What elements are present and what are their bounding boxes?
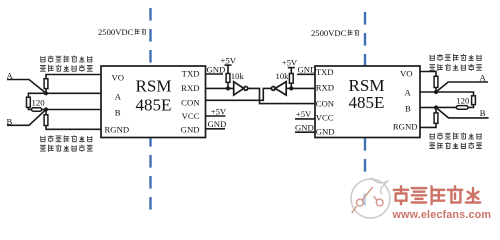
wire 10k to RXD1 node xyxy=(227,82,229,88)
resistor R 10k pull-up left xyxy=(226,74,230,83)
svg-text:GND: GND xyxy=(295,122,314,132)
note text top-left line2 xyxy=(40,65,93,72)
wire series resistor to node B2 xyxy=(436,106,456,108)
wire U1 RGND row xyxy=(46,126,101,130)
wire terminal B lead xyxy=(7,110,46,126)
label 2500VDC isolation right xyxy=(311,28,359,38)
svg-text:2500VDC: 2500VDC xyxy=(98,27,134,37)
U1 name RSM 485E xyxy=(136,77,172,115)
svg-text:CON: CON xyxy=(316,98,335,108)
svg-text:+5V: +5V xyxy=(211,106,227,116)
note text bottom-right line1 xyxy=(430,133,481,140)
svg-text:+5V: +5V xyxy=(282,58,298,68)
resistor bias VO-A (left) xyxy=(44,79,48,89)
note text bottom-left line2 xyxy=(40,145,93,152)
wire U2 TXD to GND xyxy=(297,73,315,75)
wire U2 A row xyxy=(420,92,474,96)
note text bottom-left line1 xyxy=(41,135,92,142)
resistor R 10k pull-up right xyxy=(290,83,292,88)
svg-text:120: 120 xyxy=(456,95,470,105)
svg-text:485E: 485E xyxy=(136,96,172,115)
label 2500VDC isolation left xyxy=(98,27,146,37)
power +5V symbol left xyxy=(221,56,237,74)
wire terminal A lead xyxy=(7,80,46,94)
wire resistor to node A1 xyxy=(45,89,47,94)
watermark text dianzifashaoyou xyxy=(394,186,480,204)
wire inverter U3 output to U2 CON xyxy=(248,88,315,103)
svg-text:10k: 10k xyxy=(231,71,245,81)
svg-text:GND: GND xyxy=(316,127,335,137)
svg-text:A: A xyxy=(405,88,412,98)
wire resistor to node A2 xyxy=(435,88,437,93)
inverter U3 (points right) xyxy=(234,82,248,95)
svg-text:+5V: +5V xyxy=(296,109,312,119)
svg-text:RXD: RXD xyxy=(181,83,199,93)
svg-text:B: B xyxy=(405,103,411,113)
wire 120 bottom bend xyxy=(28,107,31,109)
svg-text:GND: GND xyxy=(207,64,226,74)
svg-text:B: B xyxy=(115,107,121,117)
svg-text:+5V: +5V xyxy=(221,56,237,66)
note text top-right line1 xyxy=(430,54,481,61)
wire 120 bottom bend xyxy=(468,105,474,108)
wire U2 VCC stub xyxy=(295,118,315,120)
wire U2 VO row xyxy=(420,72,436,77)
wire U2 B row xyxy=(420,107,436,109)
wire U1 RXD row xyxy=(206,87,234,89)
svg-text:485E: 485E xyxy=(349,93,385,112)
note text top-right line2 xyxy=(429,64,482,71)
op-amp module U2 RSM485E box xyxy=(315,66,420,138)
svg-text:RSM: RSM xyxy=(136,77,172,96)
svg-text:120: 120 xyxy=(32,98,46,108)
svg-text:CON: CON xyxy=(181,98,200,108)
wire U1 B row xyxy=(46,109,101,111)
wire terminal A lead xyxy=(436,82,488,92)
svg-text:GND: GND xyxy=(181,125,200,135)
resistor bias B-RGND (right) xyxy=(435,108,437,113)
node B1 junction xyxy=(44,107,48,111)
wire U2 GND stub xyxy=(295,131,315,133)
svg-text:TXD: TXD xyxy=(182,68,200,78)
isolation dashed line right (2500VDC) xyxy=(364,12,366,186)
node A1 junction xyxy=(44,91,48,95)
op-amp module U1 RSM485E box xyxy=(101,66,206,138)
resistor 120 termination (left) xyxy=(27,97,31,107)
svg-text:VO: VO xyxy=(112,72,125,82)
resistor bias VO-A (right) xyxy=(434,76,438,87)
wire U1 VCC stub xyxy=(206,115,226,117)
svg-text:RGND: RGND xyxy=(393,121,418,131)
watermark logo ball xyxy=(351,178,390,219)
node RXD2 junction xyxy=(289,86,293,90)
svg-text:TXD: TXD xyxy=(316,67,334,77)
svg-text:2500VDC: 2500VDC xyxy=(311,28,347,38)
wire U1 A row xyxy=(28,93,101,97)
wire U2 RXD row xyxy=(286,87,315,89)
node B2 junction xyxy=(434,105,438,109)
U2 name RSM 485E xyxy=(349,76,385,112)
svg-text:GND: GND xyxy=(208,119,227,129)
wire U1 CON row xyxy=(206,88,272,100)
svg-text:RXD: RXD xyxy=(316,82,334,92)
wire U1 VO row xyxy=(46,75,101,79)
svg-text:www.elecfans.com: www.elecfans.com xyxy=(392,209,492,221)
resistor 120 termination (right) xyxy=(472,96,476,105)
resistor series on B line (right) xyxy=(456,106,468,110)
svg-text:B: B xyxy=(480,108,486,118)
isolation dashed line left (2500VDC) xyxy=(149,8,151,218)
svg-text:VCC: VCC xyxy=(316,113,334,123)
svg-text:10k: 10k xyxy=(275,71,289,81)
node RXD1 junction xyxy=(226,86,230,90)
resistor bias B-RGND (left) xyxy=(45,110,47,115)
svg-text:A: A xyxy=(115,92,122,102)
wire series resistor to node B1 xyxy=(42,109,46,111)
svg-text:RGND: RGND xyxy=(105,124,130,134)
note text bottom-right line2 xyxy=(429,142,482,149)
note text top-left line1 xyxy=(41,56,92,63)
node A2 junction xyxy=(434,90,438,94)
wire U1 TXD to GND xyxy=(206,73,224,75)
wire U1 GND stub xyxy=(206,128,226,130)
svg-text:VCC: VCC xyxy=(182,111,200,121)
wire U2 RGND row xyxy=(420,123,436,127)
svg-text:VO: VO xyxy=(400,68,413,78)
inverter U4 (points left) xyxy=(271,82,286,95)
svg-text:GND: GND xyxy=(298,65,317,75)
svg-text:A: A xyxy=(480,72,487,82)
resistor series on B line (left) xyxy=(32,108,42,112)
wire terminal B lead xyxy=(436,108,489,118)
power +5V symbol right xyxy=(282,58,298,74)
